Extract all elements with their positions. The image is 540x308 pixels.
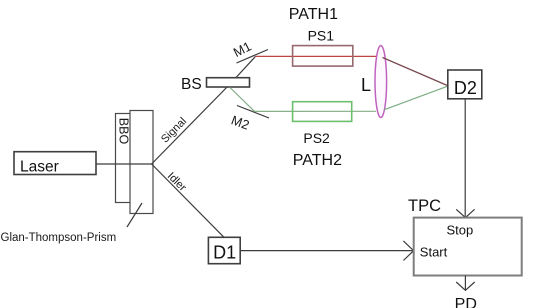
Glan-Thompson prism body	[130, 111, 153, 214]
mirror M2	[237, 106, 269, 119]
Laser box	[14, 152, 96, 175]
arrowhead into TPC left	[403, 241, 413, 261]
detector D1	[208, 237, 240, 263]
svg-text:Glan-Thompson-Prism: Glan-Thompson-Prism	[1, 232, 117, 244]
svg-text:Laser: Laser	[20, 159, 59, 176]
wire BS to M1	[231, 56, 256, 83]
wire laser to BBO	[96, 163, 152, 165]
detector D2	[448, 70, 482, 99]
beam splitter BS	[207, 78, 250, 87]
green beam BS to M2	[230, 88, 255, 112]
svg-text:Stop: Stop	[447, 222, 474, 237]
arrowhead to PD	[456, 282, 475, 290]
arrowhead into TPC top	[456, 209, 474, 217]
svg-text:TPC: TPC	[408, 197, 441, 215]
svg-text:Start: Start	[420, 245, 448, 260]
mirror M1	[237, 50, 269, 64]
phase shifter PS1	[293, 46, 353, 67]
signal beam wire (BBO to BS)	[152, 83, 231, 164]
red beam M1 to lens	[256, 55, 377, 57]
svg-text:PD: PD	[455, 296, 477, 308]
wire TPC to PD	[464, 276, 466, 290]
wire D1 to TPC	[240, 250, 413, 252]
svg-text:BBO: BBO	[117, 118, 131, 145]
dark red beam lens to D2	[383, 58, 448, 86]
svg-text:PATH2: PATH2	[293, 152, 342, 169]
svg-text:L: L	[361, 75, 371, 95]
svg-text:D2: D2	[454, 78, 477, 98]
lens L	[375, 46, 387, 118]
svg-text:PS2: PS2	[303, 130, 330, 146]
prism pointer line	[127, 203, 142, 227]
phase shifter PS2	[293, 102, 352, 122]
idler beam wire (BBO to D1)	[152, 164, 224, 237]
wire D2 to TPC	[464, 99, 466, 217]
BBO crystal	[116, 114, 131, 203]
TPC box	[414, 218, 522, 276]
svg-text:PS1: PS1	[308, 28, 335, 44]
green beam M2 to lens	[255, 110, 377, 112]
svg-text:D1: D1	[213, 243, 236, 263]
green beam lens to D2	[384, 86, 448, 110]
svg-text:BS: BS	[181, 76, 202, 93]
svg-text:PATH1: PATH1	[289, 6, 338, 23]
